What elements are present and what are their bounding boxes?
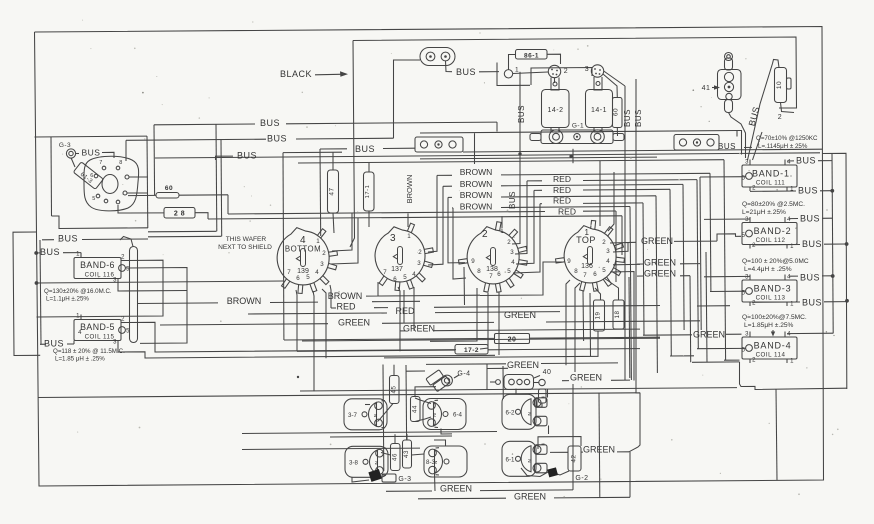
wire chassis mid line — [463, 149, 822, 152]
svg-text:BUS: BUS — [517, 105, 526, 123]
svg-text:4: 4 — [787, 217, 791, 223]
svg-text:N: N — [433, 460, 439, 464]
ink speck — [297, 376, 299, 378]
wire wafer4 extra drop b — [589, 293, 592, 356]
svg-text:BUS: BUS — [623, 109, 632, 127]
svg-text:Q=80±20% @2.5MC.: Q=80±20% @2.5MC. — [742, 201, 805, 208]
svg-text:COIL 116: COIL 116 — [85, 272, 115, 279]
wire right margin inner vertical — [832, 154, 833, 334]
svg-text:BUS: BUS — [456, 67, 476, 77]
wire row2 top rail — [242, 448, 420, 449]
svg-text:THIS WAFER: THIS WAFER — [226, 236, 267, 243]
coil BAND-5 (coil 115) — [74, 320, 121, 341]
wire bottom rail long — [39, 393, 641, 398]
41 circle a — [724, 72, 733, 81]
svg-text:7: 7 — [99, 160, 103, 166]
svg-text:6: 6 — [497, 271, 501, 278]
svg-text:139: 139 — [297, 268, 309, 275]
wire wafer3 pin4 lead — [516, 190, 534, 264]
resistor 17-1 — [364, 172, 375, 211]
terminal circle 1 — [504, 70, 512, 78]
svg-text:4: 4 — [787, 275, 791, 281]
lug A — [426, 52, 435, 61]
wire bottom hook — [740, 362, 847, 390]
svg-text:BUS: BUS — [355, 144, 375, 154]
svg-text:2: 2 — [418, 249, 422, 256]
junction dot l1 — [34, 251, 38, 255]
svg-text:3: 3 — [390, 233, 396, 244]
terminal strip T2 — [674, 135, 719, 151]
wire G-4 left lead — [407, 370, 426, 372]
svg-text:G-3: G-3 — [398, 476, 411, 483]
wire wafer1 tab feed — [319, 149, 322, 236]
wire 20 leads — [468, 337, 495, 339]
wire 17-1 top lead — [368, 163, 370, 173]
wire brown stair s4 — [443, 185, 452, 187]
wire band6 pin5 — [126, 268, 188, 344]
wire brown stair s2 — [437, 174, 452, 176]
svg-text:47: 47 — [329, 187, 336, 195]
wire 60 bottom lead — [616, 128, 618, 137]
wire 46-38 link — [381, 453, 391, 456]
svg-text:10: 10 — [776, 81, 783, 89]
T2 lug 2 — [693, 139, 700, 146]
wire 18 bottom lead (green) — [541, 362, 618, 365]
40 lug 1 — [509, 379, 515, 385]
wire wafer1 pin3 lead — [331, 218, 358, 264]
svg-text:4: 4 — [787, 332, 791, 338]
svg-text:COIL 115: COIL 115 — [85, 334, 115, 341]
svg-text:3: 3 — [510, 249, 514, 256]
wire wafer2 pin2 lead — [428, 175, 437, 252]
connector 40 right lug — [539, 379, 545, 385]
svg-text:9: 9 — [567, 258, 571, 265]
tube socket shield outline — [84, 156, 139, 211]
wire wafer3 pin3 lead — [515, 181, 527, 254]
wire shield-box right edge — [146, 136, 149, 228]
svg-text:2: 2 — [507, 239, 511, 246]
40 lug 3 — [524, 379, 529, 384]
tube socket 8-3 — [424, 446, 467, 477]
wire wafer4 pin3 lead — [613, 242, 628, 252]
wire 41 bottom lead — [729, 113, 746, 159]
svg-text:138: 138 — [486, 266, 498, 273]
coil BAND-1 (coil 111) — [742, 165, 797, 187]
svg-text:GREEN: GREEN — [693, 330, 725, 340]
wire chassis strip top-left segment — [35, 135, 148, 138]
wire BUS-2 drop into socket — [125, 140, 127, 161]
junction dot chassis2 — [569, 155, 572, 158]
wire 3-7 pins — [365, 404, 370, 406]
G-1 ear right — [613, 134, 624, 141]
svg-text:42: 42 — [571, 455, 578, 463]
rotary wafer 2 (138) — [467, 227, 519, 284]
wire 45 bottom diag — [378, 404, 394, 422]
svg-text:14-1: 14-1 — [591, 107, 607, 114]
wire red stair s5 — [534, 189, 542, 191]
wire bus left vertical — [40, 240, 41, 344]
wire oval drop — [394, 60, 421, 138]
wire 6-4 bottom — [441, 429, 452, 435]
wire 10 bottom lead — [781, 103, 795, 113]
wire BUS mid-3 left — [216, 156, 234, 160]
svg-text:Q=70±10% @1250KC: Q=70±10% @1250KC — [756, 135, 818, 142]
wire bus long left — [37, 281, 284, 283]
rotary wafer 4-BOTTOM (139) — [277, 228, 329, 285]
wire green g5 — [562, 380, 569, 382]
wire BLACK arrow — [315, 73, 345, 76]
svg-text:BUS: BUS — [260, 118, 280, 128]
wire BLACK vertical — [350, 41, 355, 248]
svg-text:8: 8 — [574, 268, 578, 275]
wire shield-box bottom step — [52, 216, 149, 229]
socket pin 5 — [96, 194, 100, 198]
svg-text:BUS: BUS — [508, 191, 517, 209]
resistor 28 — [164, 208, 195, 219]
terminal small below 40 — [539, 389, 547, 403]
svg-text:BUS: BUS — [798, 186, 818, 196]
svg-text:BAND-5: BAND-5 — [80, 322, 115, 332]
svg-text:COIL 112: COIL 112 — [756, 237, 786, 244]
wire 86-1 right lead — [547, 54, 561, 64]
svg-text:L=1.1μH ±.25%: L=1.1μH ±.25% — [46, 296, 89, 303]
wire wafer1 pin5 drop — [313, 291, 314, 391]
41 top stem — [725, 58, 733, 70]
socket pin 6 — [94, 174, 98, 178]
wire band4 pin5 stub — [697, 347, 746, 349]
wire 17-2 leads — [297, 350, 455, 351]
svg-text:6: 6 — [296, 275, 300, 282]
svg-text:BUS: BUS — [82, 148, 101, 158]
capacitor 10 body — [775, 68, 787, 103]
wire green w4-1 — [674, 240, 717, 242]
G-1 lug right — [591, 130, 605, 144]
svg-text:4: 4 — [511, 259, 515, 266]
41 top circle — [725, 53, 733, 61]
wire 19 bottom lead — [384, 331, 598, 358]
41 bottom stem — [725, 100, 733, 113]
svg-text:4: 4 — [606, 258, 610, 265]
wire band4 bottom line — [692, 361, 740, 363]
svg-text:N: N — [526, 412, 532, 416]
wire socket pin1 right — [129, 176, 148, 178]
wire 6-1 curl — [521, 468, 552, 477]
wire drop from BUS-1 — [215, 124, 218, 231]
svg-text:L=.1145μH ± 25%: L=.1145μH ± 25% — [758, 143, 808, 150]
tube socket 3-7 — [344, 399, 387, 430]
T1 lug 2 — [435, 141, 442, 148]
svg-text:GREEN: GREEN — [504, 310, 536, 320]
svg-text:BROWN: BROWN — [460, 190, 493, 200]
svg-text:L=1.85μH ±.25%: L=1.85μH ±.25% — [744, 322, 794, 329]
svg-text:BUS: BUS — [802, 239, 822, 249]
svg-text:44: 44 — [411, 405, 418, 413]
wire 8-3 bottom drop — [434, 474, 437, 491]
svg-text:2 8: 2 8 — [174, 211, 185, 218]
wire wafer4 pin4 lead — [613, 263, 640, 266]
40 lug 2 — [517, 379, 522, 384]
svg-text:BROWN: BROWN — [460, 167, 493, 177]
T1 lug 1 — [420, 141, 427, 148]
wire wafer4 pin6 drop — [595, 288, 601, 300]
svg-text:3-7: 3-7 — [348, 412, 358, 419]
svg-text:GREEN: GREEN — [514, 492, 546, 502]
svg-text:BAND-2: BAND-2 — [754, 226, 792, 236]
wire 6-2 tab bottom down — [548, 426, 550, 435]
svg-text:COIL 114: COIL 114 — [756, 352, 786, 359]
wire trimmer2 drop — [554, 78, 556, 83]
junction dot r1 — [830, 189, 834, 193]
wire G-1 to stair drop — [572, 149, 574, 163]
coil 14-2 neck top — [551, 78, 559, 91]
svg-text:41: 41 — [702, 85, 711, 92]
wire 61-3 to grommet — [71, 158, 75, 167]
wire chassis strip top-right segment — [420, 131, 737, 134]
coil 14-2 — [542, 90, 570, 128]
tube socket center hole — [102, 175, 118, 194]
junction dot r2 — [845, 242, 849, 246]
svg-text:GREEN: GREEN — [507, 360, 539, 370]
wire drop to resistor-60 lead — [153, 125, 156, 196]
wire 47 top lead — [332, 152, 334, 170]
svg-text:COIL 113: COIL 113 — [756, 295, 786, 302]
mounting strip G-1 — [541, 130, 613, 144]
svg-text:2: 2 — [752, 243, 756, 249]
connector 40 strip — [504, 375, 534, 390]
wire bus drop A — [519, 72, 521, 154]
svg-text:BUS: BUS — [58, 234, 78, 244]
resistor 44 — [411, 397, 421, 422]
svg-text:45: 45 — [390, 386, 397, 394]
svg-text:BROWN: BROWN — [227, 296, 262, 306]
coil BAND-3 (coil 113) — [742, 280, 797, 302]
svg-text:GREEN: GREEN — [644, 258, 676, 268]
wire wafer3 pin6 drop — [498, 292, 500, 355]
svg-text:BAND-1.: BAND-1. — [752, 169, 793, 179]
wire bus stair s1 — [298, 160, 724, 163]
svg-text:GREEN: GREEN — [570, 373, 602, 383]
socket pin 4 — [116, 200, 120, 204]
resistor 60 left — [156, 193, 179, 199]
socket pin 2 — [123, 191, 127, 195]
svg-text:2: 2 — [121, 255, 125, 261]
wire 10 top hook — [773, 60, 780, 68]
svg-text:5: 5 — [507, 268, 511, 275]
svg-text:G-1: G-1 — [572, 123, 584, 130]
wire band5 pin3 — [118, 345, 495, 359]
wire green drop 629 — [628, 277, 631, 378]
wire wafer4 pin7 drop — [575, 283, 580, 372]
svg-text:BAND-3: BAND-3 — [754, 284, 792, 294]
svg-text:3: 3 — [585, 66, 589, 73]
svg-text:BUS: BUS — [40, 247, 60, 257]
svg-text:Q=100±20%@7.5MC.: Q=100±20%@7.5MC. — [742, 314, 807, 321]
svg-text:NEXT TO SHIELD: NEXT TO SHIELD — [218, 244, 272, 251]
svg-text:5: 5 — [92, 196, 96, 202]
wire band6 pin1 drop — [80, 253, 82, 258]
wire red long 2 — [248, 313, 387, 314]
wire stub line a — [148, 230, 217, 233]
wire band3 pin5 stub — [710, 290, 746, 292]
wire green bot-3 — [418, 497, 506, 500]
wire 6-2 left vertical — [502, 366, 504, 399]
wire wafer3 tab8 lead — [453, 208, 466, 279]
wire extra bundle vertical — [706, 252, 707, 362]
wire green long 3 — [302, 338, 660, 341]
14-2 neck circle — [553, 82, 557, 86]
terminal strip 2-lug oval — [420, 48, 455, 66]
svg-text:1: 1 — [515, 67, 519, 74]
svg-text:L=1.85 μH ± .25%: L=1.85 μH ± .25% — [55, 356, 105, 363]
svg-text:BUS: BUS — [796, 156, 816, 166]
svg-text:5: 5 — [306, 274, 310, 281]
wire band6 pin2 — [37, 260, 164, 317]
wire 43 top lead — [406, 434, 408, 440]
svg-text:BUS: BUS — [44, 339, 64, 349]
wire 3-8 bottom leads — [352, 478, 369, 483]
resistor 47 — [328, 170, 339, 213]
svg-text:BUS: BUS — [800, 214, 820, 224]
wire green bot-2 — [386, 490, 432, 492]
wire wafer4 tab1a — [599, 161, 601, 226]
wire green band4 line — [643, 334, 692, 336]
svg-text:L=21μH ±.25%: L=21μH ±.25% — [742, 209, 786, 216]
wire drop from BUS-2 — [220, 140, 223, 237]
wire BUS diagonal — [748, 64, 773, 161]
wire band2 pin3 stub — [704, 218, 750, 220]
svg-text:3: 3 — [606, 248, 610, 255]
wire brown long 1 — [138, 302, 218, 305]
svg-text:6: 6 — [90, 173, 94, 179]
svg-text:GREEN: GREEN — [641, 236, 673, 246]
svg-text:5: 5 — [403, 274, 407, 281]
wire chassis strip bottom edge — [155, 153, 820, 158]
svg-text:4: 4 — [787, 160, 791, 166]
wire wafer1 pin6 drop — [296, 290, 297, 351]
svg-text:46: 46 — [391, 453, 398, 461]
svg-text:43: 43 — [403, 450, 410, 458]
wire right margin top link — [822, 153, 847, 389]
svg-text:G-4: G-4 — [457, 371, 470, 378]
coil BAND-4 (coil 114) — [742, 337, 797, 359]
svg-text:Q=130±20% @16.0M.C.: Q=130±20% @16.0M.C. — [44, 288, 112, 295]
wire red stair s7 — [540, 203, 542, 205]
wire annotation leader — [753, 132, 763, 160]
wire 46 top lead — [394, 434, 396, 443]
wire bus vert-2 — [624, 86, 626, 380]
wire resistor 60 lead — [128, 194, 156, 196]
wire long vertical x406 — [405, 365, 408, 440]
coil 14-1 neck top — [594, 77, 602, 90]
svg-text:G-3: G-3 — [59, 142, 71, 149]
wire w4-3 vertical — [689, 276, 692, 363]
svg-text:3: 3 — [745, 275, 749, 281]
wire wafer3 tab1 lead — [501, 216, 503, 228]
wire green bot-3 riser — [598, 393, 601, 497]
svg-text:2: 2 — [602, 239, 606, 246]
svg-text:6: 6 — [393, 276, 397, 283]
wire green long 2 (20 feed) — [284, 339, 468, 340]
resistor 46 — [391, 444, 401, 471]
svg-text:4: 4 — [315, 269, 319, 276]
resistor 20 — [495, 334, 530, 344]
wire wafer2 pin3 lead — [428, 186, 443, 265]
wire BUS mid-4 — [320, 148, 347, 150]
svg-text:BROWN: BROWN — [328, 291, 363, 301]
wire bottom box right edge — [776, 389, 777, 481]
svg-text:BLACK: BLACK — [280, 69, 312, 79]
wire band5 pin2 — [125, 322, 456, 352]
svg-text:2: 2 — [322, 250, 326, 257]
wire red stair s3 — [527, 180, 542, 182]
trimmer 3 — [591, 65, 603, 77]
resistor 60 vertical — [613, 98, 623, 128]
wire wafer1 pin7 drop — [282, 153, 285, 340]
wire 6-2 top lead — [515, 389, 517, 395]
svg-text:RED: RED — [336, 302, 356, 312]
trimmer assembly 41 body — [718, 70, 742, 100]
wire 45 top lead — [393, 365, 395, 376]
terminal box around circle 1 — [497, 63, 530, 86]
coil BAND-6 (coil 116) — [74, 258, 121, 279]
G-1 lug left — [549, 130, 563, 144]
svg-text:BAND-4: BAND-4 — [754, 341, 792, 351]
T2 lug 1 — [679, 139, 686, 146]
G-4 plates — [426, 369, 450, 393]
wire wafer3 pin2 lead — [512, 154, 520, 244]
wire 86-1 left lead — [509, 55, 516, 70]
svg-text:3: 3 — [417, 260, 421, 267]
G-1 lug mid — [574, 134, 580, 140]
svg-text:1: 1 — [790, 359, 794, 365]
wire shield-box left edge — [50, 137, 53, 216]
wire red long 1 — [331, 307, 336, 309]
svg-text:6-1: 6-1 — [506, 456, 516, 463]
wire green w4-2 — [637, 263, 643, 265]
wire resistor 60 right lead (red line) — [179, 194, 228, 196]
wire 47 bottom lead — [333, 213, 334, 233]
svg-text:N: N — [526, 459, 532, 463]
terminal 61-3 — [73, 162, 103, 189]
wire note leader coil114 — [772, 330, 774, 334]
G-1 ear left — [530, 134, 541, 141]
resistor 18 — [613, 300, 624, 329]
wire 42 bottom lead — [557, 471, 569, 475]
wire drop x474 — [474, 133, 476, 164]
svg-text:3: 3 — [745, 217, 749, 223]
resistor 45 — [390, 376, 400, 404]
G-3 solder blob — [368, 469, 382, 482]
40 lug left tail — [496, 380, 501, 385]
svg-text:6: 6 — [593, 271, 597, 278]
svg-text:6-4: 6-4 — [453, 412, 463, 419]
svg-text:137: 137 — [391, 266, 403, 273]
wire small part down — [537, 398, 542, 407]
svg-text:17-2: 17-2 — [464, 347, 479, 354]
svg-text:7: 7 — [287, 269, 291, 276]
wire band1 pin5 stub — [700, 176, 746, 178]
wire wafer1 pin3b drop — [330, 285, 331, 308]
wire trimmer3 to 60 — [603, 74, 617, 98]
wire bottom rail short — [300, 388, 737, 391]
svg-text:COIL 111: COIL 111 — [756, 180, 785, 187]
svg-text:3: 3 — [745, 332, 749, 338]
coil 14-1 — [586, 90, 613, 128]
svg-text:2: 2 — [752, 186, 756, 192]
wire wafer3 tab9 lead — [448, 197, 465, 263]
wire wafer1 pin2 lead — [332, 213, 352, 251]
svg-text:9: 9 — [471, 258, 475, 265]
